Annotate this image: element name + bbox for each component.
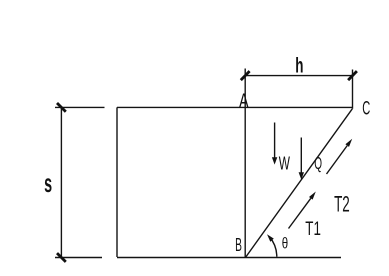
svg-text:s: s [44, 168, 52, 198]
node s dimension tick bottom [57, 253, 66, 262]
svg-text:T2: T2 [334, 191, 350, 216]
wire Q force arrow [299, 138, 304, 180]
wire T1 tension arrow [289, 192, 316, 229]
wire s dimension line [60, 107, 62, 257]
svg-text:W: W [279, 153, 291, 174]
wire diagonal B-C [246, 109, 352, 257]
svg-text:Q: Q [314, 153, 322, 173]
wire s top extension [55, 106, 105, 108]
node s dimension tick top [57, 103, 66, 112]
node theta angle arc [267, 234, 277, 256]
wire T2 tension arrow [327, 139, 353, 174]
svg-text:C: C [362, 97, 370, 119]
wire right edge / extension at x=245 [244, 69, 246, 258]
svg-text:A: A [239, 90, 249, 112]
node h dimension tick left [241, 71, 250, 80]
svg-text:T1: T1 [305, 218, 321, 240]
wire s bottom extension [55, 257, 102, 259]
wire extension above C [352, 70, 354, 109]
wire h dimension line [245, 75, 352, 77]
svg-text:θ: θ [282, 235, 288, 252]
wire bottom edge through B [117, 257, 341, 259]
node h dimension tick right [348, 71, 357, 80]
svg-text:h: h [295, 53, 303, 77]
svg-text:B: B [235, 234, 242, 255]
wire W force arrow [272, 123, 277, 165]
wire top edge A-C [117, 106, 352, 108]
wire rectangle left edge [116, 107, 118, 257]
